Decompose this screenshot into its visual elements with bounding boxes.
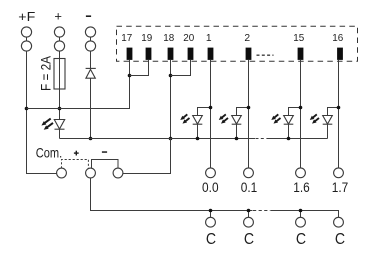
node junction 18/20 xyxy=(169,74,173,78)
wire C stub 0.0 xyxy=(210,211,212,218)
node junction LED 0.1 / rail xyxy=(235,137,239,141)
node junction - line / return rail xyxy=(89,137,93,141)
svg-text:19: 19 xyxy=(141,33,152,44)
pin 18 xyxy=(168,48,174,60)
pin 19 xyxy=(146,48,152,60)
node junction LED 1.7 / pin 16 xyxy=(337,106,341,110)
svg-text:0.0: 0.0 xyxy=(202,180,219,195)
C terminal 1.7 xyxy=(334,217,344,227)
wire +F vertical down to Com terminal xyxy=(27,51,57,173)
pin 2 label xyxy=(244,33,250,44)
output label 0.0 xyxy=(202,180,219,195)
wire pin 18 down to return rail xyxy=(170,60,172,139)
jumper + label xyxy=(74,151,79,156)
channel 1.6: wire pin 15 down xyxy=(300,60,302,168)
LED return rail xyxy=(60,138,256,140)
C label 0.0 xyxy=(206,231,216,248)
channels xyxy=(180,60,348,248)
svg-text:17: 17 xyxy=(121,33,132,44)
node junction fuse bottom xyxy=(58,107,62,111)
fuse F1 (F = 2A) xyxy=(54,59,65,90)
pin 16 xyxy=(337,48,343,60)
wire C stub 1.6 xyxy=(300,211,302,218)
LED 1.7 anode corner wire xyxy=(328,108,339,116)
diode V1 (reverse polarity protection) xyxy=(86,67,96,69)
wire + / fuse vertical xyxy=(59,51,61,119)
svg-text:15: 15 xyxy=(293,33,304,44)
output label 1.7 xyxy=(332,180,349,195)
svg-text:F = 2A: F = 2A xyxy=(38,56,53,91)
output label 1.6 xyxy=(293,180,310,195)
svg-text:+F: +F xyxy=(18,9,35,24)
pin 17 xyxy=(127,48,133,60)
wire LED 0.1 cathode to rail xyxy=(236,124,238,138)
Com. label xyxy=(36,145,63,161)
continuation dashes return rail xyxy=(256,138,267,140)
svg-text:+: + xyxy=(54,9,62,24)
connector dashed box xyxy=(117,26,358,61)
LED 0.0 anode corner wire xyxy=(198,108,211,116)
svg-text:0.1: 0.1 xyxy=(241,180,258,195)
wire - vertical below diode to LED return rail xyxy=(90,78,92,138)
node junction C rail 1.6 xyxy=(299,209,303,213)
pin 20 xyxy=(188,48,194,60)
svg-text:1.6: 1.6 xyxy=(293,180,310,195)
jumper - label xyxy=(102,151,107,153)
channel 0.0: wire pin 1 down xyxy=(210,60,212,168)
svg-text:C: C xyxy=(244,231,254,248)
LED 1.6 emission arrows xyxy=(271,114,280,123)
channel 1.7: wire pin 16 down xyxy=(338,60,340,168)
svg-text:1: 1 xyxy=(206,33,212,44)
internal - terminal circle xyxy=(113,168,123,178)
LED 1.6 anode corner wire xyxy=(289,108,301,116)
output terminal 1.6 xyxy=(296,168,306,178)
C label 0.1 xyxy=(244,231,254,248)
LED P1 (power) xyxy=(54,120,64,130)
Com terminal circle xyxy=(57,168,67,178)
node junction LED 1.6 / rail xyxy=(287,137,291,141)
svg-text:16: 16 xyxy=(332,33,343,44)
pin 15 xyxy=(298,48,304,60)
pin 20 label xyxy=(183,33,194,44)
C terminal 0.0 xyxy=(206,217,216,227)
C label 1.7 xyxy=(335,231,345,248)
C terminal 1.6 xyxy=(296,217,306,227)
node junction LED 0.0 / rail xyxy=(196,137,200,141)
continuation dashes pins 2..15 xyxy=(257,54,274,56)
LED 0.1 xyxy=(232,116,242,125)
svg-text:Com.: Com. xyxy=(36,145,63,161)
output label 0.1 xyxy=(241,180,258,195)
solid jumper + to - xyxy=(92,160,119,169)
C label 1.6 xyxy=(296,231,306,248)
fuse value label F = 2A xyxy=(38,56,53,91)
wire LED 1.7 cathode to rail end xyxy=(327,124,329,138)
wire pin 20 down and left to pin 18 xyxy=(171,60,191,76)
LED 0.1 anode corner wire xyxy=(237,108,249,116)
node junction C rail 0.0 xyxy=(209,209,213,213)
C rail right section xyxy=(270,211,338,218)
terminal - label xyxy=(86,15,91,17)
node junction +F / 17-19 net xyxy=(25,107,29,111)
svg-text:C: C xyxy=(335,231,345,248)
output terminal 1.7 xyxy=(334,168,344,178)
node junction 18 / return rail / Com minus wire xyxy=(169,137,173,141)
terminal +F circles xyxy=(21,27,31,37)
node junction 17/19 xyxy=(128,74,132,78)
pin 1 label xyxy=(206,33,212,44)
node junction C rail 0.1 xyxy=(247,209,251,213)
internal + terminal circle xyxy=(86,168,96,178)
svg-text:1.7: 1.7 xyxy=(332,180,349,195)
dashed jumper Com to + xyxy=(62,160,89,169)
terminal + circles xyxy=(54,27,64,37)
svg-text:2: 2 xyxy=(244,33,250,44)
output terminal 0.1 xyxy=(244,168,254,178)
wire - vertical above diode xyxy=(90,51,92,68)
pin 18 label xyxy=(163,33,174,44)
pin 2 xyxy=(246,48,252,60)
pin 19 label xyxy=(141,33,152,44)
LED 0.0 emission arrows xyxy=(180,114,189,123)
pin 1 xyxy=(208,48,214,60)
wire power LED cathode to return rail xyxy=(59,129,61,138)
wire pin 17 down xyxy=(129,60,131,76)
wire return rail right section xyxy=(267,138,328,140)
svg-text:C: C xyxy=(296,231,306,248)
wire - terminal to return rail xyxy=(123,139,171,174)
pin 17 label xyxy=(121,33,132,44)
wire + terminal down to C rail xyxy=(91,178,253,211)
LED 1.6 xyxy=(284,116,294,125)
wire C stub 0.1 xyxy=(248,211,250,218)
LED 0.0 xyxy=(193,116,203,125)
wire LED 0.0 cathode to rail xyxy=(197,124,199,138)
pin 15 label xyxy=(293,33,304,44)
wire LED 1.6 cathode to rail xyxy=(288,124,290,138)
node junction LED 0.0 / pin 1 xyxy=(209,106,213,110)
output terminal 0.0 xyxy=(206,168,216,178)
wire pin 19 down and left to pin 17 xyxy=(130,60,149,76)
terminal +F label xyxy=(18,9,35,24)
svg-text:C: C xyxy=(206,231,216,248)
C terminal 0.1 xyxy=(244,217,254,227)
LED 1.7 emission arrows xyxy=(310,114,319,123)
terminal - circles xyxy=(85,27,95,37)
node junction LED 0.1 / pin 2 xyxy=(247,106,251,110)
svg-text:20: 20 xyxy=(183,33,194,44)
terminal + label xyxy=(54,9,62,24)
channel 0.1: wire pin 2 down xyxy=(248,60,250,168)
LED P1 (power) emission arrows xyxy=(41,119,53,130)
svg-text:18: 18 xyxy=(163,33,174,44)
pin 16 label xyxy=(332,33,343,44)
continuation dashes C rail xyxy=(253,210,270,212)
LED 1.7 xyxy=(323,116,333,125)
wire net +F/fuse/pins17-19 horizontal xyxy=(27,76,130,109)
LED 0.1 emission arrows xyxy=(219,114,228,123)
node junction LED 1.6 / pin 15 xyxy=(299,106,303,110)
